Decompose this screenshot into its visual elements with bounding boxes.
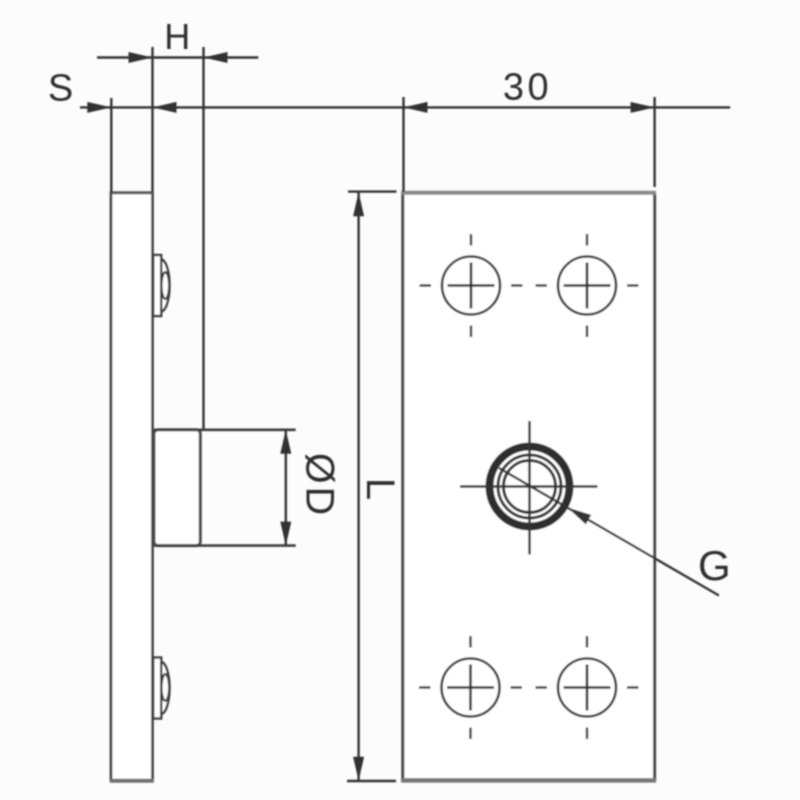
hole top-left (420, 234, 523, 337)
central threaded hole G (460, 421, 598, 555)
svg-text:H: H (164, 16, 190, 57)
svg-text:S: S (48, 68, 73, 110)
top collar bump (side view) (153, 255, 169, 316)
svg-text:L: L (358, 478, 402, 500)
side view plate (110, 193, 154, 782)
hole bottom-left (419, 636, 522, 739)
hole top-right (536, 234, 639, 337)
svg-text:ØD: ØD (298, 453, 342, 518)
dimension 30 (404, 67, 655, 193)
dimension S (48, 68, 730, 194)
hole bottom-right (536, 636, 639, 739)
front view plate (401, 191, 656, 781)
boss cylinder (side view) (154, 430, 200, 546)
svg-text:G: G (698, 542, 731, 589)
dimension L (347, 192, 402, 781)
dimension OD (boss diameter) (154, 430, 342, 546)
bottom collar bump (side view) (153, 658, 169, 719)
leader line to G (499, 468, 731, 596)
dimension H (97, 16, 258, 430)
svg-text:30: 30 (503, 67, 552, 109)
